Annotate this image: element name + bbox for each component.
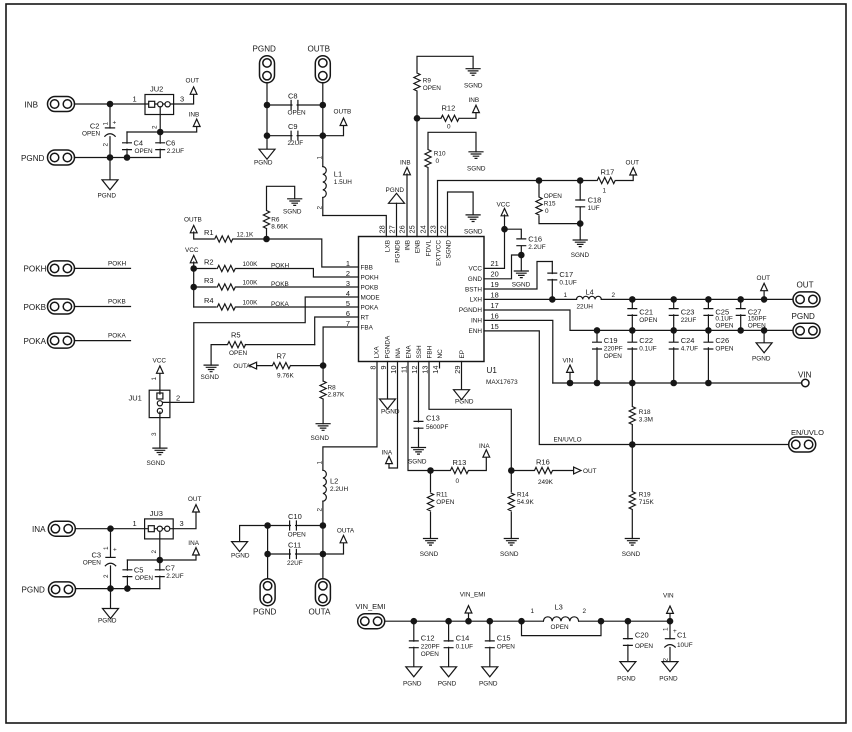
svg-text:C1: C1 — [677, 631, 687, 640]
connector PGND (OUTA) — [260, 579, 275, 606]
connector INB — [48, 97, 75, 112]
net flag INA (JU3) — [193, 548, 200, 555]
svg-text:LXA: LXA — [373, 346, 380, 359]
junction C10 left — [264, 522, 271, 529]
wire BSTH pin19 to C17 — [484, 262, 552, 290]
svg-text:R10: R10 — [434, 150, 446, 157]
wire JU1 pin1 to VCC flag — [159, 373, 161, 395]
svg-text:27: 27 — [388, 225, 397, 233]
ground SGND (R5) — [204, 365, 218, 372]
junction C20 — [625, 618, 632, 625]
connector PGND (OUT) — [793, 323, 820, 338]
svg-text:OPEN: OPEN — [635, 643, 653, 650]
junction VCC-R3 — [190, 284, 197, 291]
svg-text:PGNDA: PGNDA — [384, 335, 391, 358]
svg-text:C23: C23 — [681, 307, 695, 316]
resistor R14 — [510, 471, 512, 539]
svg-text:17: 17 — [491, 301, 499, 310]
svg-text:PGND: PGND — [98, 618, 117, 625]
wire INH pin16 to VIN rail — [484, 320, 553, 383]
ground flag PGND (pin29 EP) — [461, 362, 463, 390]
svg-text:INA: INA — [32, 525, 46, 534]
svg-text:OUTB: OUTB — [308, 45, 330, 54]
svg-text:2: 2 — [612, 292, 616, 299]
resistor R12 — [417, 112, 476, 119]
ground PGND (C12) — [406, 667, 422, 677]
junction ENA/R13/R11 — [427, 467, 434, 474]
svg-text:SGND: SGND — [500, 551, 519, 558]
junction C23 top — [670, 296, 677, 303]
svg-text:2.87K: 2.87K — [328, 392, 345, 399]
svg-text:23: 23 — [429, 225, 438, 233]
svg-text:28: 28 — [378, 225, 387, 233]
svg-text:1UF: 1UF — [588, 205, 600, 212]
capacitor C14 — [448, 621, 450, 667]
svg-text:22UF: 22UF — [287, 560, 303, 567]
svg-text:SGND: SGND — [512, 282, 531, 289]
svg-text:OUTA: OUTA — [337, 528, 355, 535]
junction VIN flag — [567, 380, 574, 387]
svg-text:5600PF: 5600PF — [426, 424, 448, 431]
net flag OUT (rail) — [763, 290, 765, 300]
wire LXH pin18 rail — [484, 298, 792, 300]
ground SGND (R11) — [424, 539, 438, 546]
svg-text:0.1UF: 0.1UF — [456, 644, 473, 651]
svg-text:3: 3 — [180, 95, 184, 104]
svg-text:20: 20 — [491, 270, 499, 279]
svg-text:R11: R11 — [436, 492, 448, 499]
svg-text:0: 0 — [545, 208, 549, 215]
net flag VIN (rail) — [569, 372, 571, 384]
junction PGND rail (INA) — [107, 585, 114, 592]
wire INA to JU3 — [75, 528, 173, 530]
junction C16 bottom — [518, 252, 525, 259]
ground PGND (INB) — [102, 180, 118, 190]
ground PGND (C1) — [662, 662, 678, 672]
svg-text:C22: C22 — [639, 336, 653, 345]
ground PGND (C10) — [232, 542, 248, 552]
svg-text:220PF: 220PF — [421, 644, 440, 651]
wire PGND col — [266, 83, 268, 136]
svg-text:2: 2 — [583, 608, 587, 615]
resistor R6 — [267, 186, 295, 239]
jumper JU2 — [145, 95, 174, 115]
junction C1/VIN — [667, 618, 674, 625]
junction VIN_EMI flag — [465, 618, 472, 625]
svg-text:249K: 249K — [538, 479, 554, 486]
junction C9 right — [320, 132, 327, 139]
junction OUT flag — [761, 296, 768, 303]
svg-text:PGND: PGND — [254, 160, 273, 167]
capacitor C21 — [631, 299, 633, 330]
svg-text:EN/UVLO: EN/UVLO — [554, 437, 582, 444]
svg-text:C6: C6 — [166, 139, 176, 148]
svg-text:15: 15 — [491, 322, 499, 331]
L3 bypass wire — [522, 621, 602, 635]
svg-text:54.9K: 54.9K — [517, 499, 534, 506]
svg-text:C13: C13 — [426, 414, 440, 423]
resistor R10 — [428, 132, 476, 236]
resistor R15 — [539, 181, 580, 224]
junction FBH/R14/R16 — [508, 467, 515, 474]
svg-text:1: 1 — [531, 608, 535, 615]
wire L1 to pin28 LXB — [323, 216, 387, 237]
svg-text:+: + — [113, 547, 117, 554]
resistor R5 — [211, 345, 315, 366]
junction C18 bottom — [577, 220, 584, 227]
inductor L1 — [322, 136, 324, 216]
svg-text:VIN: VIN — [563, 358, 574, 365]
svg-text:C9: C9 — [288, 122, 298, 131]
capacitor C25 — [707, 299, 709, 330]
svg-text:25: 25 — [408, 225, 417, 233]
svg-text:C11: C11 — [288, 541, 301, 550]
connector PGND (INB side) — [48, 150, 75, 165]
wire JU3 pin3 to OUT flag — [173, 511, 196, 529]
svg-text:C7: C7 — [165, 564, 175, 573]
svg-text:C16: C16 — [528, 235, 542, 244]
svg-text:OPEN: OPEN — [715, 322, 733, 329]
svg-text:2: 2 — [151, 550, 158, 554]
ground SGND (R8) — [316, 424, 330, 431]
svg-text:PGND: PGND — [21, 154, 45, 163]
resistor R4 — [194, 306, 359, 308]
svg-text:VCC: VCC — [497, 201, 511, 208]
resistor R17 — [616, 174, 633, 180]
junction C9 left — [264, 132, 271, 139]
capacitor C8 — [267, 104, 323, 106]
capacitor C2 (polarized) — [109, 104, 111, 158]
svg-text:ENH: ENH — [469, 328, 483, 335]
svg-text:1: 1 — [151, 377, 158, 381]
svg-text:1: 1 — [316, 156, 323, 160]
svg-text:OUTB: OUTB — [334, 109, 352, 116]
svg-text:11: 11 — [400, 366, 409, 374]
svg-text:INA: INA — [479, 443, 490, 450]
svg-text:OPEN: OPEN — [135, 148, 153, 155]
VIN_EMI rail — [385, 620, 670, 622]
svg-text:0: 0 — [456, 478, 460, 485]
svg-text:12: 12 — [410, 366, 419, 374]
svg-text:POKB: POKB — [361, 284, 379, 291]
svg-text:JU2: JU2 — [150, 85, 163, 94]
svg-text:SGND: SGND — [311, 435, 330, 442]
capacitor C12 — [413, 621, 415, 667]
svg-text:SGND: SGND — [201, 374, 220, 381]
svg-text:SGND: SGND — [622, 551, 641, 558]
junction VCC-R2 — [190, 265, 197, 272]
wire left col to PGND flag — [240, 526, 268, 542]
svg-text:INB: INB — [400, 159, 411, 166]
svg-text:OUT: OUT — [626, 159, 640, 166]
connector EN/UVLO — [789, 437, 816, 452]
junction C27 top — [737, 296, 744, 303]
svg-text:R16: R16 — [536, 458, 550, 467]
svg-text:C8: C8 — [288, 92, 298, 101]
U1 bottom pin names (rotated) — [373, 335, 466, 358]
svg-text:OUT: OUT — [186, 78, 200, 85]
svg-text:LXB: LXB — [384, 240, 391, 252]
svg-text:C20: C20 — [635, 631, 649, 640]
junction C12 — [411, 618, 418, 625]
svg-text:C15: C15 — [497, 634, 511, 643]
ground SGND (JU1) — [153, 448, 167, 455]
wire GND pin20 — [484, 255, 521, 279]
resistor R8 — [322, 366, 324, 424]
svg-text:OPEN: OPEN — [544, 193, 562, 200]
wire POKA — [75, 340, 131, 342]
svg-text:NC: NC — [437, 349, 444, 359]
svg-text:R6: R6 — [271, 217, 280, 224]
junction C10 right — [320, 522, 327, 529]
inductor L4 — [577, 296, 602, 299]
svg-text:VIN: VIN — [798, 371, 812, 380]
svg-text:PGND: PGND — [617, 676, 636, 683]
wire pin27 PGNDB — [396, 203, 398, 236]
svg-text:+: + — [673, 628, 677, 635]
svg-text:2.2UF: 2.2UF — [167, 148, 184, 155]
capacitor C26 — [707, 330, 709, 383]
junction C4 bottom — [124, 154, 131, 161]
wire pin26 INB — [406, 174, 408, 237]
svg-text:0: 0 — [436, 158, 440, 165]
svg-text:19: 19 — [491, 280, 499, 289]
ground SGND (R10) — [469, 152, 483, 159]
connector PGND (INA side) — [49, 582, 76, 597]
svg-text:SGND: SGND — [283, 209, 302, 216]
svg-text:16: 16 — [491, 311, 499, 320]
svg-text:PGND: PGND — [231, 553, 250, 560]
svg-text:PGND: PGND — [253, 607, 277, 616]
ground flag PGND (pin9 PGNDA) — [387, 362, 389, 400]
svg-text:RT: RT — [361, 314, 369, 321]
junction R18/R19 EN/UVLO — [629, 441, 636, 448]
svg-text:1: 1 — [564, 292, 568, 299]
svg-text:PGND: PGND — [455, 399, 474, 406]
ground PGND (OUTB) — [259, 149, 275, 159]
svg-text:SGND: SGND — [147, 460, 166, 467]
svg-text:INB: INB — [404, 240, 411, 251]
svg-text:3: 3 — [180, 519, 184, 528]
svg-text:C14: C14 — [456, 634, 470, 643]
junction C11 left — [264, 551, 271, 558]
svg-text:SGND: SGND — [571, 252, 590, 259]
svg-text:PGND: PGND — [752, 356, 771, 363]
wire VCC to pin21 — [484, 215, 505, 268]
svg-text:OUTA: OUTA — [233, 363, 251, 370]
svg-text:POKH: POKH — [24, 265, 47, 274]
net flag VCC (JU1) — [157, 366, 164, 373]
svg-text:SGND: SGND — [420, 551, 439, 558]
svg-text:PGND: PGND — [381, 409, 400, 416]
junction INA node — [107, 525, 114, 532]
junction C8 left — [264, 102, 271, 109]
svg-text:INB: INB — [469, 97, 480, 104]
wire ENH pin15 to EN/UVLO row — [484, 331, 789, 445]
net flag INA (R13) — [483, 450, 490, 457]
wire JU2 pin2 down — [159, 107, 161, 132]
svg-text:VCC: VCC — [185, 247, 199, 254]
capacitor C22 — [631, 330, 633, 383]
resistor R19 — [631, 445, 633, 539]
junction C15 — [487, 618, 494, 625]
wire OUTB node to flag — [323, 125, 344, 136]
svg-text:R19: R19 — [639, 492, 651, 499]
svg-text:MODE: MODE — [361, 294, 380, 301]
resistor R9 — [417, 56, 473, 236]
wire FBA pin7 to divider — [323, 327, 358, 366]
svg-text:R1: R1 — [204, 228, 214, 237]
svg-text:VIN: VIN — [663, 593, 674, 600]
wire VCC column — [193, 262, 195, 307]
svg-text:2.2UF: 2.2UF — [528, 244, 545, 251]
junction C17/LXH — [549, 296, 556, 303]
svg-text:OUTA: OUTA — [309, 607, 331, 616]
svg-text:POKB: POKB — [24, 303, 47, 312]
svg-text:1.5UH: 1.5UH — [334, 179, 352, 186]
svg-text:0.1UF: 0.1UF — [559, 280, 576, 287]
op-amp U1 MAX17673 body — [359, 237, 485, 362]
svg-text:4.7UF: 4.7UF — [681, 346, 698, 353]
U1 right pin names — [459, 266, 482, 336]
svg-text:R14: R14 — [517, 492, 529, 499]
wire C16 to SGND — [520, 255, 522, 271]
svg-text:FBA: FBA — [361, 324, 374, 331]
ground PGND (C15) — [482, 667, 498, 677]
svg-text:2: 2 — [663, 658, 670, 662]
junction VCC/C16 — [501, 226, 508, 233]
junction INB node — [107, 101, 114, 108]
svg-text:R18: R18 — [639, 409, 651, 416]
svg-text:3: 3 — [151, 432, 158, 436]
svg-text:OPEN: OPEN — [421, 651, 439, 658]
capacitor C16 — [505, 229, 522, 255]
junction C27 bottom — [737, 327, 744, 334]
wire L2 to OUTA node — [322, 501, 324, 579]
wire PGND rail (INA) — [76, 588, 160, 590]
svg-text:SGND: SGND — [467, 166, 486, 173]
svg-text:SGND: SGND — [464, 229, 483, 236]
capacitor C17 — [548, 273, 557, 280]
capacitor C5 — [126, 560, 128, 589]
svg-text:SGND: SGND — [464, 83, 483, 90]
wire pin23 EXTVCC row — [438, 181, 597, 237]
svg-text:PGND: PGND — [438, 681, 457, 688]
junction C22 bottom / R18 — [629, 380, 636, 387]
wire down to PGND symbol — [109, 158, 111, 180]
svg-text:EXTVCC: EXTVCC — [435, 240, 442, 266]
svg-text:R5: R5 — [231, 331, 241, 340]
ground PGND (C14) — [441, 667, 457, 677]
svg-text:LXH: LXH — [470, 297, 483, 304]
svg-text:EN/UVLO: EN/UVLO — [791, 428, 824, 437]
svg-text:PGND: PGND — [479, 681, 498, 688]
net flag VCC (R2) — [190, 255, 197, 262]
svg-text:POKH: POKH — [361, 274, 379, 281]
svg-text:2.2UH: 2.2UH — [330, 486, 348, 493]
svg-text:9.76K: 9.76K — [277, 373, 294, 380]
capacitor C9 — [267, 135, 323, 137]
ground SGND (R6) — [288, 199, 302, 206]
U1 top pin names (rotated) — [384, 240, 452, 266]
svg-text:OPEN: OPEN — [82, 131, 100, 138]
svg-text:R7: R7 — [277, 352, 287, 361]
svg-text:PGNDB: PGNDB — [394, 240, 401, 263]
svg-text:OPEN: OPEN — [748, 322, 766, 329]
inductor L2 — [323, 470, 326, 501]
svg-text:1: 1 — [133, 95, 137, 104]
svg-text:C10: C10 — [288, 512, 302, 521]
connector VIN_EMI — [358, 614, 385, 629]
junction R1/R6 — [263, 236, 270, 243]
svg-text:10UF: 10UF — [677, 642, 693, 649]
svg-text:L3: L3 — [555, 603, 563, 612]
junction C24 top / C23 bottom — [670, 327, 677, 334]
wire RT pin6 to R5 — [315, 317, 359, 345]
svg-text:BSTH: BSTH — [465, 287, 482, 294]
svg-text:R12: R12 — [442, 104, 456, 113]
net flag INA (pin10) — [388, 464, 390, 468]
svg-text:PGND: PGND — [792, 312, 816, 321]
jumper JU1 — [149, 390, 170, 417]
ground PGND (C20) — [620, 662, 636, 672]
svg-text:12.1K: 12.1K — [237, 232, 254, 239]
svg-text:OPEN: OPEN — [229, 350, 247, 357]
svg-text:OUT: OUT — [188, 496, 202, 503]
VIN terminal circle — [802, 379, 809, 386]
svg-text:INB: INB — [189, 111, 200, 118]
svg-text:R9: R9 — [423, 78, 432, 85]
svg-text:OUT: OUT — [583, 468, 597, 475]
net flag OUTB — [340, 118, 347, 125]
svg-text:POKA: POKA — [108, 333, 126, 340]
wire JU3 pin2 down — [159, 532, 161, 561]
svg-text:21: 21 — [491, 259, 499, 268]
capacitor C4 — [126, 132, 128, 158]
net flag INB (JU2) — [193, 119, 200, 126]
net flag VCC (C16) — [501, 208, 508, 215]
svg-text:PGND: PGND — [98, 193, 117, 200]
ground SGND (C18) — [573, 240, 587, 247]
U1 left pin names — [361, 264, 380, 331]
wire PGND col to ground — [266, 136, 268, 150]
svg-text:2: 2 — [103, 574, 110, 578]
svg-text:3.3M: 3.3M — [639, 417, 653, 424]
junction R7/R8 — [320, 362, 327, 369]
svg-text:FBH: FBH — [426, 345, 433, 358]
svg-text:ENB: ENB — [414, 240, 421, 253]
svg-text:VCC: VCC — [469, 266, 483, 273]
capacitor C7 — [159, 560, 161, 589]
svg-text:2: 2 — [103, 143, 110, 147]
resistor R18 — [631, 383, 633, 445]
svg-text:R2: R2 — [204, 258, 214, 267]
junction L3 left — [518, 618, 525, 625]
svg-text:0: 0 — [447, 124, 451, 131]
svg-text:22UF: 22UF — [681, 317, 697, 324]
svg-text:14: 14 — [431, 366, 440, 374]
svg-text:OPEN: OPEN — [288, 109, 306, 116]
svg-text:OPEN: OPEN — [288, 532, 306, 539]
capacitor C1 (polarized) — [669, 621, 671, 661]
node INA-cap rail — [157, 557, 164, 564]
svg-text:8: 8 — [369, 366, 378, 370]
svg-text:C5: C5 — [134, 566, 144, 575]
svg-text:FDVL: FDVL — [425, 240, 432, 257]
svg-text:GND: GND — [468, 276, 483, 283]
wire down to PGND symbol (INA) — [110, 589, 112, 609]
svg-text:2.2UF: 2.2UF — [166, 573, 183, 580]
